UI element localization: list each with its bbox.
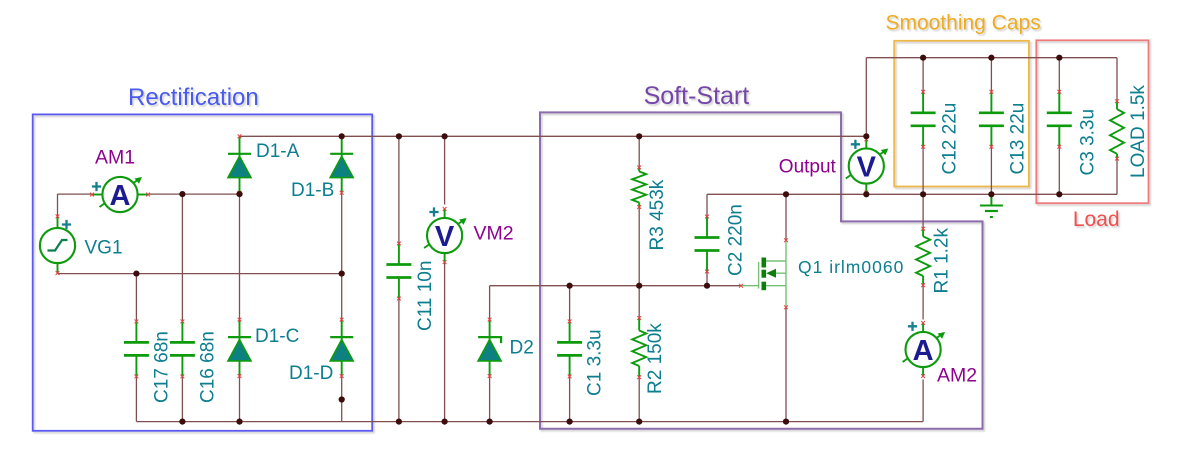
- svg-text:C13 22u: C13 22u: [1008, 103, 1029, 175]
- svg-text:D2: D2: [510, 338, 534, 359]
- svg-text:C3 3.3u: C3 3.3u: [1078, 109, 1099, 176]
- svg-text:V: V: [435, 221, 455, 253]
- svg-text:Output: Output: [779, 157, 837, 178]
- svg-text:D1-D: D1-D: [289, 363, 333, 384]
- svg-text:Smoothing Caps: Smoothing Caps: [885, 12, 1040, 35]
- svg-text:AM1: AM1: [95, 147, 135, 169]
- svg-text:AM2: AM2: [937, 365, 977, 387]
- svg-text:A: A: [110, 180, 131, 212]
- svg-text:V: V: [857, 152, 877, 184]
- svg-text:A: A: [913, 335, 934, 367]
- svg-text:R3 453k: R3 453k: [647, 179, 668, 250]
- svg-text:C12 22u: C12 22u: [940, 103, 961, 175]
- svg-text:Soft-Start: Soft-Start: [644, 82, 750, 110]
- svg-text:C11 10n: C11 10n: [415, 261, 436, 331]
- svg-text:Load: Load: [1073, 208, 1120, 231]
- svg-text:D1-A: D1-A: [256, 141, 300, 162]
- svg-text:Rectification: Rectification: [128, 84, 259, 111]
- svg-text:C16 68n: C16 68n: [198, 331, 219, 403]
- svg-text:C2 220n: C2 220n: [726, 204, 747, 276]
- svg-text:D1-B: D1-B: [291, 180, 334, 201]
- svg-text:VG1: VG1: [85, 238, 123, 259]
- svg-text:D1-C: D1-C: [255, 326, 299, 347]
- svg-text:R1 1.2k: R1 1.2k: [932, 228, 953, 294]
- svg-text:Q1 irlm0060: Q1 irlm0060: [798, 257, 904, 277]
- svg-text:VM2: VM2: [474, 223, 514, 245]
- svg-text:R2 150k: R2 150k: [645, 323, 666, 394]
- svg-text:LOAD 1.5k: LOAD 1.5k: [1128, 85, 1149, 178]
- svg-text:C1 3.3u: C1 3.3u: [585, 329, 606, 396]
- svg-text:C17 68n: C17 68n: [152, 331, 173, 403]
